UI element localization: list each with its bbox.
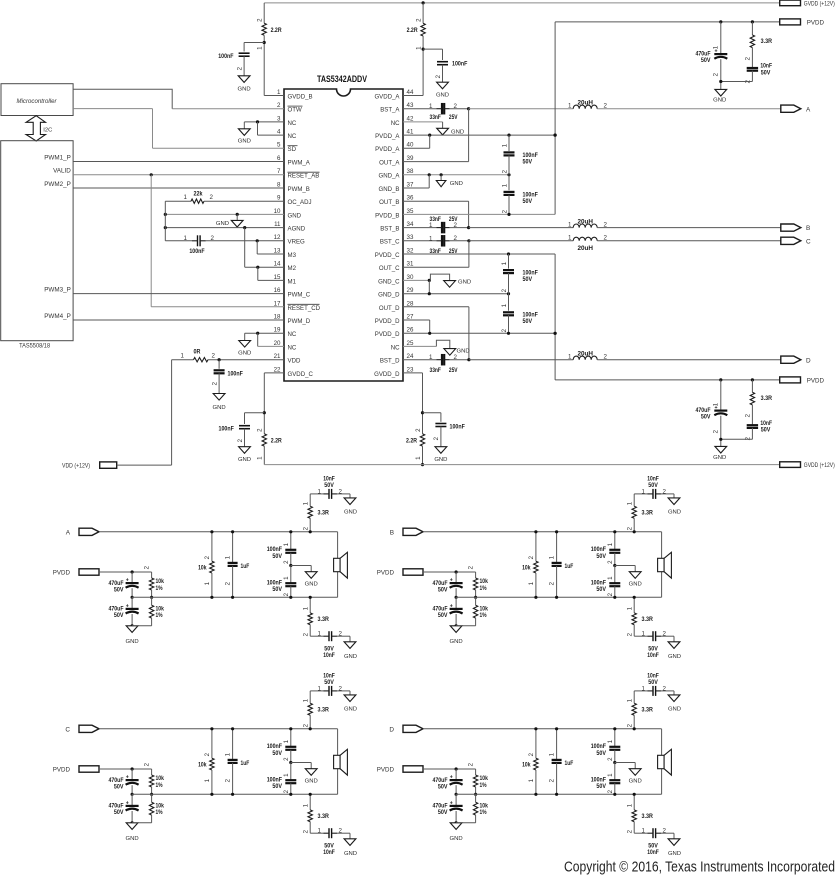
wire GND_B (pin37) tie	[428, 175, 430, 188]
svg-text:50V: 50V	[596, 586, 606, 593]
capacitor 10nF 50V top snubber (block A)	[310, 493, 323, 495]
svg-text:1uF: 1uF	[565, 563, 574, 570]
wire OUT_C (pin31) to BST junction	[403, 266, 469, 268]
svg-text:2: 2	[210, 194, 214, 201]
svg-text:GND: GND	[344, 654, 357, 660]
resistor 22k on OC_ADJ (pin9)	[165, 200, 191, 202]
block B PVDD wire	[423, 571, 476, 573]
svg-text:2.2R: 2.2R	[271, 27, 282, 34]
svg-text:50V: 50V	[596, 553, 606, 560]
svg-text:7: 7	[277, 168, 281, 175]
svg-text:C: C	[65, 726, 70, 733]
svg-text:14: 14	[274, 261, 281, 268]
svg-text:1: 1	[568, 235, 572, 242]
svg-text:3.3R: 3.3R	[761, 38, 773, 45]
capacitor 470uF 50V (PVDD bottom)	[720, 380, 722, 411]
svg-text:2: 2	[604, 354, 608, 361]
svg-text:50V: 50V	[272, 586, 282, 593]
svg-text:10k: 10k	[522, 762, 531, 769]
AGND vertical tie	[164, 201, 166, 241]
svg-text:GND: GND	[457, 349, 470, 355]
svg-text:1uF: 1uF	[241, 760, 250, 767]
svg-text:1: 1	[568, 103, 572, 110]
svg-text:PWM4_P: PWM4_P	[44, 313, 71, 320]
svg-text:PWM1_P: PWM1_P	[44, 154, 71, 161]
svg-text:20uH: 20uH	[577, 350, 593, 357]
capacitor 33nF 25V (BST_C)	[403, 240, 437, 242]
capacitor 100nF 50V upper (block C)	[290, 729, 292, 747]
svg-text:50V: 50V	[648, 482, 658, 489]
svg-text:50V: 50V	[523, 276, 533, 283]
svg-text:GND: GND	[451, 129, 464, 135]
svg-text:GVDD_A: GVDD_A	[374, 93, 400, 100]
capacitor 470uF 50V upper (block C)	[131, 769, 133, 780]
svg-text:1: 1	[277, 89, 281, 96]
svg-text:2: 2	[225, 581, 232, 585]
svg-text:3.3R: 3.3R	[318, 616, 330, 623]
svg-text:GND: GND	[238, 350, 251, 356]
svg-text:2: 2	[204, 752, 211, 756]
connector PVDD bottom	[780, 377, 801, 383]
svg-text:50V: 50V	[114, 783, 124, 790]
svg-text:1%: 1%	[156, 809, 163, 816]
svg-text:2: 2	[468, 762, 475, 766]
svg-text:BST_B: BST_B	[380, 226, 399, 233]
svg-text:GND: GND	[213, 405, 226, 411]
svg-text:1: 1	[416, 46, 423, 50]
ground symbol top snubber (block D)	[673, 691, 675, 695]
block C top rail	[99, 728, 338, 730]
svg-text:0R: 0R	[194, 349, 201, 356]
svg-text:44: 44	[407, 89, 414, 96]
svg-text:1%: 1%	[156, 585, 163, 592]
svg-text:2: 2	[454, 354, 458, 361]
svg-text:10nF: 10nF	[647, 652, 659, 659]
svg-text:1uF: 1uF	[565, 760, 574, 767]
svg-text:10k: 10k	[198, 565, 207, 572]
svg-text:50V: 50V	[272, 750, 282, 757]
ground symbol (block C bulk caps)	[126, 823, 138, 830]
capacitor 100nF (GVDD_C)	[245, 412, 265, 414]
svg-text:22: 22	[274, 366, 281, 373]
svg-text:100nF: 100nF	[450, 423, 465, 430]
svg-text:1: 1	[181, 353, 185, 360]
wire PVDD_A (pin41)	[403, 134, 555, 136]
ground symbol (block A mid caps)	[291, 565, 311, 567]
svg-text:1: 1	[318, 631, 322, 638]
svg-text:1%: 1%	[480, 782, 487, 789]
ground symbol top snubber (block A)	[349, 494, 351, 498]
svg-text:2: 2	[745, 56, 752, 60]
ground symbol below VDD cap	[213, 394, 225, 401]
svg-text:1: 1	[713, 45, 720, 49]
ground symbol bottom snubber (block B)	[673, 636, 675, 642]
svg-text:2: 2	[663, 828, 667, 835]
svg-text:GVDD (+12V): GVDD (+12V)	[804, 1, 835, 7]
svg-text:2: 2	[433, 436, 440, 440]
capacitor 33nF 25V (BST_A)	[403, 108, 437, 110]
svg-text:100nF: 100nF	[219, 425, 234, 432]
svg-text:50V: 50V	[596, 783, 606, 790]
svg-text:1: 1	[713, 402, 720, 406]
svg-text:GND: GND	[450, 181, 463, 187]
svg-text:1: 1	[626, 698, 633, 702]
speaker (block B)	[661, 532, 663, 559]
svg-text:PVDD_D: PVDD_D	[375, 318, 400, 325]
capacitor 100nF 50V lower (block B)	[614, 566, 616, 584]
capacitor 10nF 50V (PVDD top snubber)	[751, 48, 753, 68]
svg-text:1: 1	[607, 542, 614, 546]
svg-text:33nF: 33nF	[430, 114, 441, 121]
svg-text:8: 8	[277, 181, 281, 188]
svg-text:41: 41	[407, 129, 414, 136]
svg-text:+: +	[450, 603, 453, 609]
block A bottom rail	[132, 596, 338, 598]
svg-text:1: 1	[642, 828, 646, 835]
svg-text:1%: 1%	[480, 809, 487, 816]
svg-text:34: 34	[407, 221, 414, 228]
svg-text:BST_D: BST_D	[380, 358, 400, 365]
capacitor 470uF 50V lower (block D)	[455, 794, 457, 806]
svg-text:2: 2	[302, 526, 309, 530]
svg-text:GND: GND	[126, 836, 139, 842]
svg-text:D: D	[806, 357, 811, 364]
svg-text:100nF: 100nF	[228, 371, 243, 378]
svg-text:1: 1	[549, 555, 556, 559]
capacitor 10nF 50V bottom snubber (block C)	[310, 832, 323, 834]
svg-text:18: 18	[274, 314, 281, 321]
ground symbol bottom snubber (block D)	[673, 833, 675, 839]
block C PVDD wire	[99, 768, 152, 770]
svg-text:GND: GND	[434, 457, 447, 463]
svg-text:33: 33	[407, 234, 414, 241]
NC pins 3-4 tie	[244, 121, 284, 123]
capacitor 10nF 50V top snubber (block C)	[310, 690, 323, 692]
capacitor 470uF 50V upper (block A)	[131, 572, 133, 583]
svg-text:1: 1	[549, 752, 556, 756]
svg-text:19: 19	[274, 327, 281, 334]
resistor 10k 1% upper (block D)	[475, 769, 477, 775]
capacitor 100nF on VDD	[218, 360, 220, 369]
resistor 10k 1% lower (block D)	[475, 794, 477, 802]
svg-text:2: 2	[211, 235, 215, 242]
svg-text:2: 2	[454, 103, 458, 110]
svg-text:2: 2	[501, 209, 508, 213]
wire PVDD_B (pin35)	[403, 213, 555, 215]
resistor 3.3R top snubber (block B)	[633, 518, 635, 532]
svg-text:AGND: AGND	[288, 226, 306, 233]
svg-text:50V: 50V	[272, 553, 282, 560]
svg-text:+: +	[450, 578, 453, 584]
speaker (block D)	[661, 729, 663, 756]
svg-text:43: 43	[407, 102, 414, 109]
svg-text:1%: 1%	[480, 585, 487, 592]
svg-text:50V: 50V	[438, 783, 448, 790]
wire AGND to M2 (pin14)	[244, 228, 246, 268]
svg-text:2: 2	[283, 789, 290, 793]
ground symbol (GVDD_C cap)	[239, 447, 251, 454]
svg-text:2: 2	[283, 592, 290, 596]
svg-text:2: 2	[528, 752, 535, 756]
svg-text:50V: 50V	[523, 318, 533, 325]
svg-text:29: 29	[407, 287, 414, 294]
resistor 3.3R top snubber (block C)	[309, 715, 311, 729]
svg-text:GND: GND	[629, 582, 642, 588]
svg-text:TAS5342ADDV: TAS5342ADDV	[317, 74, 367, 84]
connector output B	[781, 224, 801, 231]
wire micro to OTW (pin2)	[73, 89, 172, 109]
ground symbol (block B mid caps)	[615, 565, 635, 567]
svg-text:10: 10	[274, 208, 281, 215]
svg-text:1: 1	[501, 303, 508, 307]
svg-text:3.3R: 3.3R	[642, 616, 654, 623]
svg-text:1: 1	[283, 739, 290, 743]
connector GVDD (+12V) top	[780, 0, 801, 6]
capacitor 470uF 50V (PVDD top)	[720, 22, 722, 54]
block A top rail	[99, 531, 338, 533]
capacitor 470uF 50V lower (block A)	[131, 597, 133, 609]
svg-text:1: 1	[501, 143, 508, 147]
svg-text:OUT_C: OUT_C	[379, 265, 400, 272]
svg-text:1: 1	[302, 698, 309, 702]
svg-text:+: +	[450, 775, 453, 781]
svg-text:1: 1	[626, 501, 633, 505]
ground symbol bottom snubber (block C)	[349, 833, 351, 839]
capacitor 100nF (GVDD_D)	[423, 412, 441, 414]
svg-text:50V: 50V	[438, 612, 448, 619]
svg-text:3.3R: 3.3R	[642, 813, 654, 820]
inductor 20uH (channel B)	[469, 227, 574, 229]
svg-text:1: 1	[626, 606, 633, 610]
capacitor 10nF 50V top snubber (block B)	[634, 493, 647, 495]
svg-text:50V: 50V	[438, 809, 448, 816]
block D bottom rail	[456, 793, 661, 795]
svg-text:PVDD: PVDD	[53, 767, 71, 774]
resistor 2.2R (GVDD_B)	[263, 3, 265, 23]
svg-text:2: 2	[257, 428, 264, 432]
svg-text:VREG: VREG	[288, 239, 306, 246]
svg-text:GND: GND	[713, 455, 726, 461]
wire VALID to RESET_CD (pin17)	[150, 175, 152, 307]
svg-text:2: 2	[713, 429, 720, 433]
wire GND_D (pin29)	[428, 280, 430, 293]
svg-text:1: 1	[501, 183, 508, 187]
svg-text:3: 3	[277, 115, 281, 122]
svg-text:2: 2	[211, 381, 218, 385]
svg-text:PWM_A: PWM_A	[288, 160, 311, 167]
wire VREG to M3 (pin13)	[256, 241, 258, 254]
svg-text:+: +	[126, 578, 129, 584]
svg-text:PVDD_A: PVDD_A	[375, 146, 400, 153]
PVDD rail upper segment	[554, 22, 556, 215]
svg-text:3.3R: 3.3R	[642, 510, 654, 517]
svg-text:OUT_D: OUT_D	[379, 305, 400, 312]
svg-text:1: 1	[184, 194, 188, 201]
svg-text:GND: GND	[668, 654, 681, 660]
svg-text:RESET_AB: RESET_AB	[288, 173, 320, 180]
ground symbol at pins 19-20	[239, 341, 251, 348]
svg-text:2: 2	[663, 685, 667, 692]
capacitor 100nF 50V (PVDD_C-GND)	[508, 254, 510, 269]
block B bottom rail	[456, 596, 661, 598]
svg-text:GND: GND	[238, 139, 251, 145]
svg-text:2: 2	[607, 592, 614, 596]
svg-text:PVDD: PVDD	[807, 19, 825, 26]
svg-text:M1: M1	[288, 278, 297, 285]
PVDD bottom feed line	[555, 379, 780, 381]
capacitor 1uF (block A)	[232, 532, 234, 563]
svg-text:50V: 50V	[324, 679, 334, 686]
svg-text:25: 25	[407, 340, 414, 347]
svg-text:GND: GND	[668, 510, 681, 516]
svg-text:C: C	[806, 238, 811, 245]
svg-text:SD: SD	[288, 146, 297, 153]
svg-text:2: 2	[212, 353, 216, 360]
resistor 3.3R bottom snubber (block A)	[309, 597, 311, 613]
svg-text:GVDD_D: GVDD_D	[374, 371, 400, 378]
capacitor 100nF on VREG (pin12)	[165, 240, 192, 242]
svg-text:12: 12	[274, 234, 281, 241]
capacitor 100nF (GVDD_A)	[423, 48, 442, 50]
svg-text:1: 1	[257, 456, 264, 460]
resistor 2.2R (GVDD_A)	[422, 3, 424, 23]
svg-text:PVDD_A: PVDD_A	[375, 133, 400, 140]
ground symbol (PVDD bottom)	[721, 438, 753, 440]
IC U1 TAS5342ADDV body	[284, 89, 403, 381]
svg-text:BST_A: BST_A	[380, 107, 400, 114]
svg-text:A: A	[806, 106, 811, 113]
svg-text:13: 13	[274, 247, 281, 254]
svg-text:VDD: VDD	[288, 358, 301, 365]
ground symbol (block C mid caps)	[291, 762, 311, 764]
capacitor 33nF 25V (BST_D)	[403, 359, 437, 361]
svg-text:1: 1	[429, 354, 433, 361]
svg-text:2: 2	[713, 72, 720, 76]
wire pin22 GVDD_C	[264, 372, 284, 374]
svg-text:1: 1	[318, 685, 322, 692]
svg-text:2: 2	[663, 631, 667, 638]
resistor 0R on VDD (pin21)	[172, 359, 194, 361]
ground symbol at pin25	[444, 349, 456, 356]
svg-text:VALID: VALID	[53, 168, 71, 175]
svg-text:1: 1	[302, 606, 309, 610]
svg-text:2.2R: 2.2R	[271, 438, 282, 445]
svg-text:2: 2	[416, 18, 423, 22]
svg-text:1: 1	[302, 501, 309, 505]
svg-text:GVDD_C: GVDD_C	[288, 371, 314, 378]
svg-text:10nF: 10nF	[323, 652, 335, 659]
NC pin25 ground tie	[403, 345, 436, 347]
svg-text:3.3R: 3.3R	[761, 395, 773, 402]
wire micro to SD (pin5)	[73, 108, 152, 110]
connector output C	[781, 237, 801, 244]
wire GND pin10	[165, 213, 284, 215]
svg-text:PWM3_P: PWM3_P	[44, 286, 71, 293]
resistor 10k 1% upper (block B)	[475, 572, 477, 578]
block B top rail	[423, 531, 662, 533]
svg-text:B: B	[390, 529, 394, 536]
resistor 10k 1% upper (block A)	[151, 572, 153, 578]
capacitor 100nF 50V lower (block C)	[290, 763, 292, 781]
wire pin23 GVDD_D	[403, 372, 423, 374]
svg-text:15: 15	[274, 274, 281, 281]
svg-text:37: 37	[407, 181, 414, 188]
svg-text:NC: NC	[288, 133, 297, 140]
svg-text:100nF: 100nF	[218, 53, 233, 60]
svg-text:2: 2	[468, 565, 475, 569]
svg-text:2: 2	[549, 581, 556, 585]
svg-text:NC: NC	[288, 120, 297, 127]
svg-text:GND: GND	[216, 221, 229, 227]
svg-text:2: 2	[415, 428, 422, 432]
svg-text:24: 24	[407, 353, 414, 360]
svg-text:2: 2	[302, 632, 309, 636]
svg-text:GND: GND	[344, 510, 357, 516]
svg-text:GND: GND	[668, 851, 681, 857]
svg-text:1: 1	[283, 773, 290, 777]
svg-text:2.2R: 2.2R	[407, 27, 418, 34]
capacitor 470uF 50V upper (block D)	[455, 769, 457, 780]
resistor 3.3R bottom snubber (block D)	[633, 794, 635, 810]
svg-text:50V: 50V	[114, 586, 124, 593]
svg-text:1: 1	[225, 752, 232, 756]
ground symbol (PVDD top)	[721, 81, 753, 83]
ground symbol at pins 38-37	[440, 175, 442, 181]
svg-text:20uH: 20uH	[577, 218, 593, 225]
wire OUT_D (pin28) to BST junction	[403, 306, 469, 308]
resistor 3.3R (PVDD top snubber)	[751, 22, 753, 35]
svg-text:PWM_C: PWM_C	[288, 292, 311, 299]
svg-text:2: 2	[339, 685, 343, 692]
svg-text:3.3R: 3.3R	[318, 510, 330, 517]
svg-text:PVDD: PVDD	[377, 767, 395, 774]
svg-text:PWM2_P: PWM2_P	[44, 181, 71, 188]
block C bottom rail	[132, 793, 338, 795]
wire GND_A (pin38)	[403, 174, 509, 176]
svg-text:25V: 25V	[449, 367, 458, 374]
capacitor 100nF (GVDD_B)	[244, 42, 264, 44]
svg-text:2: 2	[302, 723, 309, 727]
svg-text:GND: GND	[344, 851, 357, 857]
svg-text:2: 2	[663, 488, 667, 495]
inductor 20uH (channel D)	[469, 359, 573, 361]
wire pin44 GVDD_A	[403, 95, 423, 97]
svg-text:28: 28	[407, 300, 414, 307]
svg-text:4: 4	[277, 129, 281, 136]
svg-text:GND_C: GND_C	[378, 278, 400, 285]
wire PVDD_D (pin26)	[403, 332, 555, 334]
resistor 10k (block B)	[535, 532, 537, 561]
svg-text:B: B	[806, 225, 810, 232]
wire PVDD_D (pin27) tie	[403, 319, 430, 321]
svg-text:NC: NC	[288, 331, 297, 338]
svg-text:38: 38	[407, 168, 414, 175]
ground symbol (block D mid caps)	[615, 762, 635, 764]
ground symbol (GVDD_D cap)	[435, 447, 447, 454]
svg-text:20: 20	[274, 340, 281, 347]
resistor 10k 1% lower (block A)	[151, 597, 153, 605]
wire AGND pin11	[165, 227, 284, 229]
wire PVDD_C (pin32)	[403, 253, 555, 255]
resistor 3.3R top snubber (block A)	[309, 518, 311, 532]
svg-text:2: 2	[607, 560, 614, 564]
svg-text:1: 1	[501, 261, 508, 265]
svg-text:3.3R: 3.3R	[318, 813, 330, 820]
svg-text:50V: 50V	[523, 198, 533, 205]
svg-text:50V: 50V	[761, 427, 771, 434]
svg-text:25V: 25V	[449, 114, 458, 121]
capacitor 10nF 50V bottom snubber (block A)	[310, 635, 323, 637]
